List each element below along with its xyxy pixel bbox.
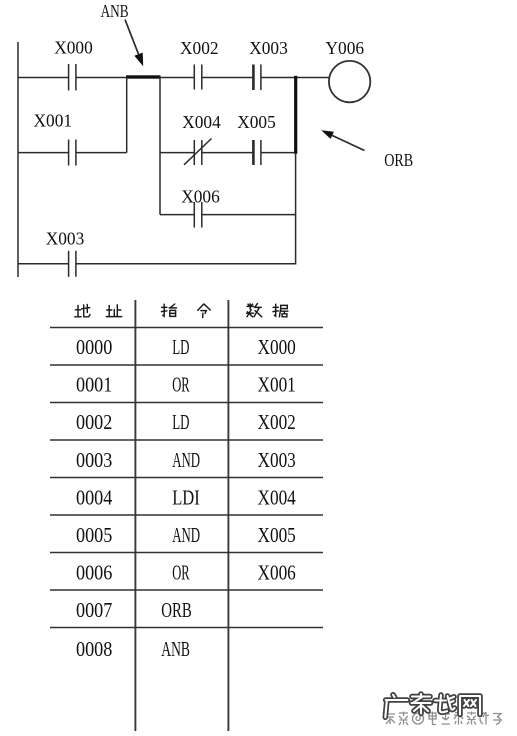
watermark char 广 <box>385 695 407 717</box>
header char 址 <box>106 305 121 317</box>
wire X003 to coil Y006 <box>261 77 329 79</box>
svg-text:X002: X002 <box>258 412 296 434</box>
svg-text:X004: X004 <box>182 112 221 132</box>
contact X003 top <box>253 65 261 91</box>
svg-text:OR: OR <box>172 562 190 584</box>
svg-text:X000: X000 <box>54 38 93 58</box>
svg-text:ORB: ORB <box>161 600 192 622</box>
wire rung4 rail to X003 bottom <box>18 263 69 265</box>
arrow ANB pointer <box>125 20 143 67</box>
svg-text:0007: 0007 <box>76 600 112 622</box>
header char 指 <box>162 304 177 316</box>
wire rung3 branch to X006 <box>160 214 194 216</box>
ANB series-block thick bar <box>126 75 161 78</box>
svg-text:X002: X002 <box>180 38 219 58</box>
wire rung1 rail to X000 <box>18 77 69 79</box>
watermark small caption 头条@电子分享份子 <box>386 712 502 726</box>
svg-text:X001: X001 <box>34 111 73 131</box>
svg-text:X003: X003 <box>258 450 296 472</box>
contact X005 <box>253 140 261 165</box>
svg-text:LDI: LDI <box>172 487 200 509</box>
contact X002 <box>194 65 202 90</box>
svg-text:X006: X006 <box>181 186 220 206</box>
wire ORB bar down to bottom rung <box>295 153 297 265</box>
contact X003 bottom <box>69 251 76 277</box>
svg-text:X003: X003 <box>46 229 85 249</box>
svg-text:X005: X005 <box>237 112 276 132</box>
contact X006 <box>194 202 202 228</box>
arrow ORB pointer <box>321 130 364 150</box>
wire X001 to ANB left branch <box>76 152 127 154</box>
watermark 广东龙网 bubble outline <box>385 694 480 717</box>
svg-text:LD: LD <box>172 337 189 359</box>
wire ANB right branch down <box>159 77 161 215</box>
svg-text:0003: 0003 <box>76 450 112 472</box>
svg-text:LD: LD <box>172 412 189 434</box>
svg-text:0002: 0002 <box>76 412 112 434</box>
wire ANB to X002 <box>160 77 194 79</box>
svg-text:0005: 0005 <box>76 525 112 547</box>
header char 令 <box>198 304 211 318</box>
svg-text:0004: 0004 <box>76 487 112 509</box>
header char 数 <box>247 304 262 317</box>
header char 据 <box>273 304 288 317</box>
wire ANB left branch down <box>126 77 128 153</box>
contact X000 <box>69 64 76 91</box>
wire X005 to ORB bar <box>261 152 295 154</box>
wire rung2 rail to X001 <box>18 152 69 154</box>
svg-text:X006: X006 <box>258 562 296 584</box>
svg-text:X005: X005 <box>258 525 296 547</box>
svg-text:X001: X001 <box>258 375 296 397</box>
wire X000 to ANB block <box>76 77 127 79</box>
wire ANB right branch to X004 <box>160 152 194 154</box>
svg-text:0006: 0006 <box>76 562 112 584</box>
wire X004 to X005 <box>202 152 253 154</box>
svg-text:Y006: Y006 <box>326 38 365 58</box>
coil Y006 <box>329 61 370 102</box>
svg-text:AND: AND <box>172 525 200 547</box>
wire X006 to right vertical <box>202 214 296 216</box>
left power rail <box>17 42 19 277</box>
svg-text:0008: 0008 <box>76 639 112 661</box>
watermark char 网 <box>460 696 480 715</box>
svg-text:ANB: ANB <box>161 639 190 661</box>
contact X001 <box>69 140 76 166</box>
svg-text:ORB: ORB <box>384 150 413 170</box>
svg-text:X003: X003 <box>249 38 288 58</box>
watermark char 东 <box>412 694 431 714</box>
table row lines <box>50 328 323 628</box>
table column separator 2 <box>227 300 229 731</box>
header 地址 指令 数据 drawn as strokes <box>75 304 288 318</box>
wire X002 to X003 <box>202 77 253 79</box>
svg-text:AND: AND <box>172 450 200 472</box>
svg-text:ANB: ANB <box>101 1 129 21</box>
watermark char 龙 <box>435 695 455 712</box>
table column separator 1 <box>134 300 136 731</box>
svg-text:OR: OR <box>172 375 190 397</box>
header char 地 <box>75 305 90 317</box>
svg-text:0000: 0000 <box>76 337 112 359</box>
contact X004 normally-closed <box>184 139 212 166</box>
svg-text:X004: X004 <box>258 487 296 509</box>
ORB result thick bar <box>294 76 297 154</box>
wire X003 bottom to right vertical <box>76 263 296 265</box>
svg-text:0001: 0001 <box>76 375 112 397</box>
svg-text:X000: X000 <box>258 337 296 359</box>
